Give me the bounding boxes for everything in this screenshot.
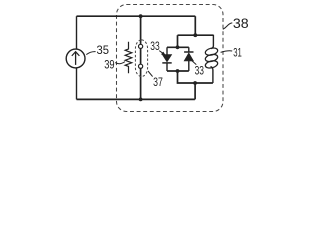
junction dot low rail xyxy=(193,81,197,85)
coil branch bottom lead xyxy=(211,67,213,84)
resistor 39 (heater stub) xyxy=(125,42,132,74)
svg-text:38: 38 xyxy=(233,16,249,31)
wire left branch lower xyxy=(76,68,78,100)
wire mid rail y35 xyxy=(178,34,214,36)
current source 35 xyxy=(66,49,85,68)
svg-text:33: 33 xyxy=(150,39,160,53)
contact blade wire xyxy=(140,49,142,65)
wire center drop from top rail xyxy=(194,16,196,35)
junction dot mid rail xyxy=(193,33,197,37)
dashed enclosure 38 xyxy=(117,5,224,112)
leader to coil 31 xyxy=(221,51,233,53)
wire top rail xyxy=(77,15,196,17)
contact lower circle xyxy=(139,64,143,68)
leader to resistor 39 xyxy=(115,62,125,64)
svg-text:35: 35 xyxy=(97,43,110,57)
wire drop to diode box top xyxy=(177,35,179,47)
wire bottom rail xyxy=(77,98,195,100)
junction dot diode box bottom xyxy=(176,69,180,73)
svg-text:39: 39 xyxy=(104,58,115,72)
svg-text:31: 31 xyxy=(233,45,242,59)
wire center drop to bottom rail xyxy=(194,83,196,99)
diode 33 left (cathode down) xyxy=(162,47,171,71)
junction dot bottom of switch branch xyxy=(139,98,143,102)
switch branch wire lower xyxy=(140,68,142,99)
switch branch wire upper xyxy=(140,16,142,44)
leader to enclosure 38 xyxy=(223,23,233,29)
diode 33 right (cathode up) xyxy=(184,47,193,71)
leader to protector 37 xyxy=(148,71,153,77)
svg-text:33: 33 xyxy=(195,64,205,78)
junction dot top of switch branch xyxy=(139,14,143,18)
inductor coil 31 xyxy=(205,47,219,69)
dashed protector outline 37 xyxy=(135,40,147,77)
leader to current source 35 xyxy=(86,52,95,55)
junction dot diode box top xyxy=(176,45,180,49)
coil branch top lead xyxy=(211,35,214,49)
wire left branch upper xyxy=(76,16,78,49)
svg-text:37: 37 xyxy=(153,75,163,89)
contact upper circle xyxy=(139,44,143,48)
wire diode box bottom to low rail xyxy=(178,71,213,83)
diode box bottom wire xyxy=(167,70,189,72)
diode box top wire xyxy=(167,46,189,48)
arrow leader to left diode 33 xyxy=(159,51,165,56)
leader to right diode 33 xyxy=(192,61,197,65)
